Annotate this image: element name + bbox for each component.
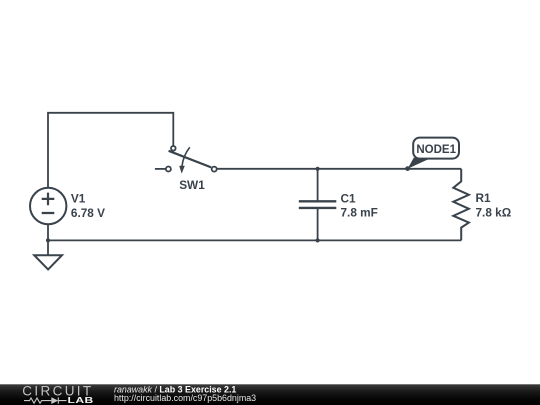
svg-text:C1: C1 [341,192,357,206]
svg-text:V1: V1 [71,192,86,206]
svg-text:SW1: SW1 [179,178,205,192]
svg-text:7.8 kΩ: 7.8 kΩ [476,206,512,220]
label C1 7.8 mF [341,192,378,220]
voltage source V1 [30,188,66,224]
svg-text:R1: R1 [476,191,492,205]
label SW1 [179,178,205,192]
wire V1 top to switch top terminal [48,113,173,189]
wire V1 bottom to ground node [47,224,49,255]
svg-text:NODE1: NODE1 [416,144,456,156]
svg-text:LAB: LAB [68,397,94,405]
wire switch to top-right corner [217,168,461,170]
node NODE1 flag [408,138,459,169]
label V1 6.78 V [71,192,105,220]
resistor R1 [453,169,469,241]
footer bar [0,384,540,405]
node junction V1 bottom [46,238,50,242]
node NODE1 junction dot [405,166,410,171]
switch SW1 [155,146,217,174]
node junction capacitor bottom [316,238,320,242]
svg-text:6.78 V: 6.78 V [71,206,105,220]
node junction capacitor top [316,167,320,171]
capacitor C1 [299,169,337,241]
svg-text:http://circuitlab.com/c97p5b6d: http://circuitlab.com/c97p5b6dnjma3 [114,393,256,403]
label R1 7.8 kOhm [476,191,512,219]
CircuitLab logo wire resistor diode [24,397,67,404]
ground [34,255,62,269]
wire bottom rail [48,239,461,241]
svg-text:7.8 mF: 7.8 mF [341,206,378,220]
